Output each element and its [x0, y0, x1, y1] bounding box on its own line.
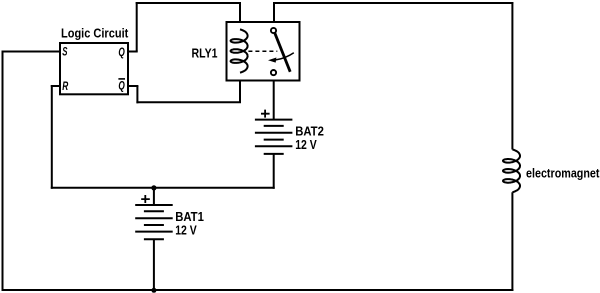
battery BAT2 plate 2 — [264, 125, 284, 127]
relay RLY1 switch blade — [275, 33, 290, 72]
wire: R vertical drop — [51, 85, 53, 189]
battery BAT1 plate 1 — [135, 204, 173, 206]
relay RLY1 actuation dashed link — [248, 50, 277, 52]
wire: switch top contact lead — [273, 2, 275, 28]
wire: BAT2 negative lead — [273, 153, 275, 188]
wire: top rail left segment (Q to relay coil) — [136, 2, 240, 4]
wire: BAT1 positive lead — [153, 188, 155, 205]
battery BAT2 plate 3 — [255, 132, 293, 134]
wire: Q pin stub — [128, 51, 138, 53]
wire: relay coil top lead — [239, 2, 241, 29]
battery BAT2 plus sign — [261, 110, 270, 118]
battery BAT2 plate 1 — [255, 119, 293, 121]
relay RLY1 switch top contact — [271, 28, 276, 33]
wire: BAT1 negative lead — [153, 239, 155, 290]
relay RLY1 switch bottom contact — [271, 70, 276, 75]
node: junction dot BAT1- / bottom rail — [151, 288, 156, 293]
battery BAT1 plate 4 — [144, 224, 164, 226]
wire: bottom rail — [2, 289, 514, 291]
battery BAT2 plate 6 — [264, 153, 284, 155]
wire: Q-bar pin stub — [128, 85, 138, 87]
wire: Q pin vertical riser — [136, 2, 138, 52]
wire: coil bottom horizontal to Q-bar riser — [136, 101, 241, 103]
svg-text:Q: Q — [118, 47, 124, 59]
wire: left rail vertical — [2, 51, 4, 291]
relay RLY1 switch arrowhead — [268, 58, 276, 63]
svg-text:electromagnet: electromagnet — [526, 166, 600, 181]
battery BAT1 plate 6 — [144, 238, 164, 240]
svg-text:12 V: 12 V — [295, 137, 317, 152]
relay RLY1 box — [227, 22, 300, 81]
svg-text:R: R — [62, 81, 68, 93]
svg-text:Logic Circuit: Logic Circuit — [61, 26, 129, 41]
wire: right rail lower (electromagnet bottom lead) — [511, 192, 513, 291]
pin Q-bar overline — [118, 78, 125, 80]
wire: mid horizontal net (R / BAT1+ / BAT2-) — [51, 187, 275, 189]
battery BAT1 plate 3 — [135, 217, 173, 219]
wire: Q-bar vertical drop — [136, 86, 138, 103]
node: junction dot BAT1+ / mid net — [151, 185, 156, 190]
battery BAT2 plate 4 — [264, 139, 284, 141]
svg-text:Q: Q — [118, 81, 124, 93]
electromagnet coil winding — [503, 150, 520, 193]
relay RLY1 switch arrow — [276, 53, 294, 60]
battery BAT1 plate 5 — [135, 231, 173, 233]
wire: S pin to left rail — [2, 51, 61, 53]
svg-text:12 V: 12 V — [175, 222, 197, 237]
svg-text:RLY1: RLY1 — [192, 46, 218, 61]
battery BAT1 plate 2 — [144, 210, 164, 212]
wire: top rail right segment (switch to right rail) — [274, 2, 513, 4]
logic circuit U1 box — [60, 43, 128, 94]
wire: R pin stub — [51, 85, 60, 87]
battery BAT2 plate 5 — [255, 145, 293, 147]
svg-text:S: S — [62, 47, 67, 59]
wire: switch bottom contact to BAT2 positive — [273, 76, 275, 120]
relay RLY1 coil winding — [231, 29, 248, 72]
wire: right rail upper (electromagnet top lead) — [511, 2, 513, 150]
wire: relay coil bottom lead — [239, 73, 241, 103]
battery BAT1 plus sign — [141, 195, 150, 203]
